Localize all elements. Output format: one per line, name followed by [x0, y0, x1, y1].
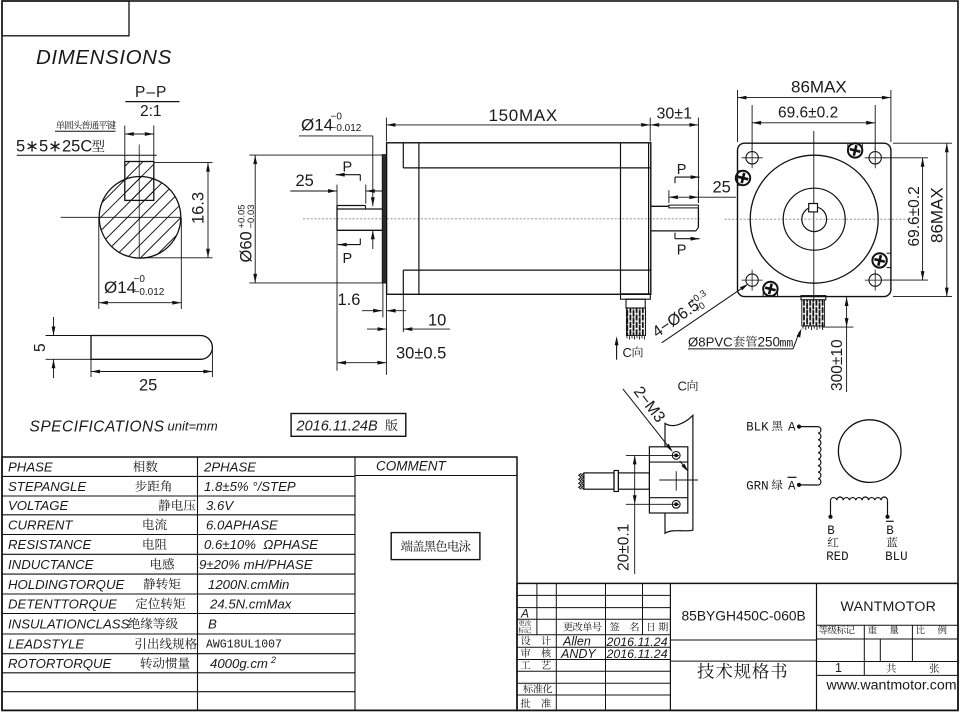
svg-text:10: 10: [428, 312, 446, 330]
keyway width dimension (extension lines and arrows): [124, 126, 126, 161]
dimension 69.6±0.2 right: [884, 157, 928, 159]
cover screw right: [872, 253, 886, 267]
front cap notch line: [402, 143, 404, 168]
phase B winding: [831, 497, 888, 500]
svg-text:69.6±0.2: 69.6±0.2: [778, 105, 838, 122]
approval row: [521, 698, 551, 707]
front view horizontal centerline: [725, 218, 910, 220]
front shaft circle: [802, 207, 827, 232]
svg-text:B: B: [208, 617, 217, 632]
label 2-M3 with leader: [623, 389, 671, 450]
hatch pattern region: shaft section circle with keyway: [28, 155, 270, 263]
svg-text:B: B: [827, 524, 835, 538]
svg-text:INSULATIONCLASS: INSULATIONCLASS: [8, 617, 130, 632]
title block right grid: [817, 624, 959, 626]
svg-text:1.6: 1.6: [338, 291, 361, 309]
phase A winding: [797, 425, 800, 428]
mounting hole Ø6.5: [746, 152, 758, 164]
dimension 10: [402, 294, 404, 332]
svg-text:INDUCTANCE: INDUCTANCE: [8, 557, 94, 572]
rear cover inner edge: [648, 143, 650, 294]
rear shaft (C view): [584, 473, 614, 489]
svg-text:16.3: 16.3: [189, 192, 207, 224]
stator bottom inset line: [403, 269, 651, 271]
rotor circle: [838, 420, 901, 483]
designer row: [521, 636, 551, 645]
svg-text:300±10: 300±10: [829, 339, 846, 391]
dimension 86MAX top: [737, 90, 739, 142]
svg-text:LEADSTYLE: LEADSTYLE: [8, 637, 84, 652]
cover screw left: [736, 171, 750, 185]
svg-text:86MAX: 86MAX: [928, 187, 947, 243]
side view centerline: [303, 218, 700, 220]
svg-text:Ø60: Ø60: [238, 231, 256, 262]
motor body outline: [387, 143, 651, 294]
view arrow C (side view): [616, 339, 618, 360]
svg-text:unit=mm: unit=mm: [168, 419, 218, 434]
section mark P (rear bottom): [691, 237, 700, 241]
checker row: [521, 648, 551, 657]
svg-text:P: P: [677, 243, 687, 259]
svg-text:A: A: [520, 607, 529, 621]
dimension diameter 14 of section: [98, 218, 100, 309]
svg-text:2016.11.24B: 2016.11.24B: [296, 419, 378, 435]
stator top inset line: [403, 167, 651, 169]
dimension 20±0.1 screw spacing: [626, 454, 679, 456]
motor corner piece (break lines): [665, 415, 693, 533]
title block frame: [517, 583, 958, 710]
svg-text:2016.11.24: 2016.11.24: [606, 647, 668, 661]
rear cable braid: [626, 308, 645, 336]
svg-text:HOLDINGTORQUE: HOLDINGTORQUE: [8, 577, 124, 592]
front end-cap inner line: [418, 143, 420, 294]
svg-text:−0.012: −0.012: [134, 287, 165, 298]
svg-text:RESISTANCE: RESISTANCE: [8, 537, 91, 552]
svg-text:A: A: [788, 421, 796, 435]
svg-text:AWG18UL1007: AWG18UL1007: [206, 639, 282, 652]
front body circle: [750, 155, 878, 283]
svg-text:A: A: [788, 480, 796, 494]
process row: [521, 660, 551, 669]
svg-text:25: 25: [296, 172, 314, 190]
svg-text:−0: −0: [134, 274, 146, 285]
svg-text:−0: −0: [331, 112, 343, 123]
svg-text:P: P: [343, 251, 353, 267]
section mark P (front bottom): [338, 243, 347, 247]
svg-text:1: 1: [835, 661, 842, 675]
svg-text:C: C: [678, 379, 687, 394]
terminal plate: [649, 447, 687, 513]
svg-text:Ø14: Ø14: [301, 116, 333, 135]
front shaft with key: [337, 205, 366, 207]
title block middle lines: [670, 639, 816, 641]
terminal plate center marks: [659, 479, 698, 481]
dimension 150MAX: [385, 118, 387, 142]
svg-text:DETENTTORQUE: DETENTTORQUE: [8, 597, 117, 612]
svg-text:2: 2: [270, 655, 276, 665]
svg-text:WANTMOTOR: WANTMOTOR: [841, 599, 937, 615]
key 5x25 outline: [91, 336, 212, 360]
svg-text:−0.012: −0.012: [331, 123, 362, 134]
revision header row: [518, 620, 531, 626]
dimension 25 rear shaft key: [668, 190, 670, 203]
rear cable gland boss: [621, 294, 651, 299]
svg-text:−0.03: −0.03: [246, 204, 257, 228]
svg-text:BLU: BLU: [885, 550, 908, 564]
dimension 30±0.5 front shaft length: [385, 294, 387, 375]
svg-text:P: P: [677, 162, 687, 178]
standardization row: [523, 684, 552, 693]
svg-text:5∗5∗25C: 5∗5∗25C: [16, 138, 92, 156]
rear shaft with key: [651, 205, 669, 207]
svg-text:4000g.cm: 4000g.cm: [210, 656, 268, 671]
cover screw top-right: [848, 143, 862, 157]
svg-text:PHASE: PHASE: [8, 460, 53, 475]
svg-text:B: B: [886, 524, 894, 538]
dimension 25 (key length): [90, 359, 92, 377]
screw M3 top: [672, 452, 680, 460]
front cable gland: [801, 296, 826, 300]
svg-text:30±1: 30±1: [657, 106, 693, 123]
svg-text:86MAX: 86MAX: [791, 78, 847, 97]
svg-text:P–P: P–P: [135, 84, 167, 101]
svg-text:5: 5: [32, 343, 49, 352]
cover screw bottom-left: [763, 282, 777, 296]
svg-text:SPECIFICATIONS: SPECIFICATIONS: [30, 419, 165, 436]
specifications table frame: [2, 457, 517, 710]
svg-text:1.8±5% °/STEP: 1.8±5% °/STEP: [204, 479, 296, 494]
svg-text:STEPANGLE: STEPANGLE: [8, 479, 86, 494]
section circle (shaft): [99, 177, 181, 259]
screw M3 bottom: [672, 500, 680, 508]
svg-text:C: C: [623, 345, 632, 360]
svg-text:Ø8PVC: Ø8PVC: [688, 335, 733, 350]
dimension 1.6 flange thickness: [382, 283, 384, 317]
dimension 300±10 cable length: [846, 297, 848, 392]
svg-text:COMMENT: COMMENT: [376, 459, 447, 474]
svg-text:150MAX: 150MAX: [489, 106, 558, 125]
svg-text:www.wantmotor.com: www.wantmotor.com: [826, 678, 957, 694]
front mounting flange plate: [382, 155, 386, 284]
table column lines: [197, 457, 199, 710]
document type: [697, 663, 786, 679]
rear end-cap inner line: [620, 143, 622, 294]
phase B-bar lead labels BLU: [886, 520, 894, 522]
label keyway type (Chinese): [56, 120, 116, 129]
svg-text:3.6V: 3.6V: [206, 498, 234, 513]
keyway rectangle: [125, 162, 154, 201]
centerlines of section circle: [138, 145, 140, 259]
dimension 25 front shaft key: [336, 185, 338, 371]
svg-text:ROTORTORQUE: ROTORTORQUE: [8, 656, 112, 671]
mounting hole Ø6.5: [869, 274, 881, 286]
front cable braid: [802, 300, 825, 326]
svg-text:20±0.1: 20±0.1: [616, 524, 633, 571]
svg-text:P: P: [343, 160, 353, 176]
grade mark header: [819, 625, 855, 634]
svg-text:6.0APHASE: 6.0APHASE: [206, 517, 278, 532]
dimension diameter 60 flange boss: [249, 154, 382, 156]
pilot boss circle: [783, 188, 845, 250]
front face square: [738, 143, 891, 296]
section mark P (front top): [336, 173, 345, 177]
svg-text:24.5N.cmMax: 24.5N.cmMax: [209, 597, 292, 612]
svg-text:25: 25: [713, 179, 731, 197]
svg-text:RED: RED: [826, 550, 849, 564]
section mark P (rear top): [691, 175, 700, 179]
dimension 30±1 (rear shaft): [697, 118, 699, 203]
mounting hole Ø6.5: [746, 274, 758, 286]
title block left grid: [517, 594, 670, 596]
svg-text:85BYGH450C-060B: 85BYGH450C-060B: [682, 609, 806, 624]
dimension 16.3: [154, 162, 213, 164]
svg-text:ANDY: ANDY: [560, 647, 597, 661]
svg-text:Ø14: Ø14: [104, 278, 136, 297]
svg-text:25: 25: [139, 377, 157, 395]
svg-text:9±20% mH/PHASE: 9±20% mH/PHASE: [199, 557, 313, 572]
dimension 69.6±0.2 top: [751, 105, 753, 150]
threaded shaft end: [581, 473, 584, 489]
svg-text:CURRENT: CURRENT: [8, 517, 73, 532]
label 4-diam6.5 with leader: [662, 286, 746, 343]
revision box 2016.11.24B: [291, 414, 406, 437]
front key square: [809, 204, 818, 212]
svg-text:BLK: BLK: [746, 421, 769, 435]
svg-text:VOLTAGE: VOLTAGE: [8, 498, 69, 513]
svg-text:DIMENSIONS: DIMENSIONS: [36, 46, 172, 69]
dimension 5 (key width): [46, 335, 91, 337]
dimension 86MAX right: [893, 142, 952, 144]
svg-text:2:1: 2:1: [140, 103, 162, 120]
svg-text:GRN: GRN: [746, 480, 769, 494]
svg-text:0.6±10% ΩPHASE: 0.6±10% ΩPHASE: [204, 537, 318, 552]
svg-text:2PHASE: 2PHASE: [203, 460, 256, 475]
svg-text:1200N.cmMin: 1200N.cmMin: [208, 577, 289, 592]
svg-text:250: 250: [758, 335, 781, 350]
front view vertical centerline: [813, 131, 815, 316]
mounting hole Ø6.5: [869, 152, 881, 164]
svg-text:30±0.5: 30±0.5: [396, 345, 446, 363]
comment box black electrophoresis end cover: [391, 533, 480, 560]
svg-text:69.6±0.2: 69.6±0.2: [906, 186, 923, 246]
top-left title box: [2, 1, 129, 36]
